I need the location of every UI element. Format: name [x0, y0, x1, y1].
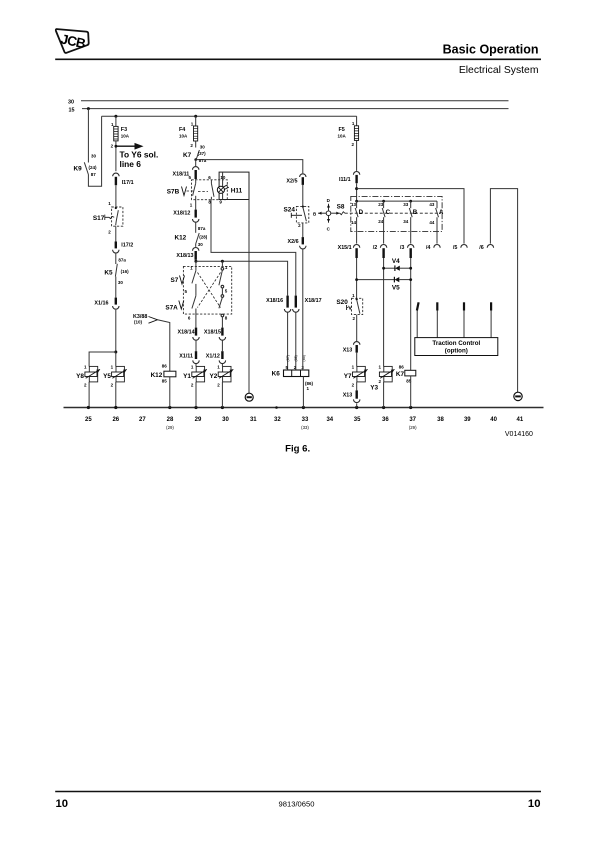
svg-text:39: 39	[464, 417, 471, 423]
svg-text:33: 33	[302, 417, 309, 423]
svg-text:24: 24	[378, 219, 384, 224]
svg-text:/2: /2	[373, 245, 378, 251]
node S7 right branch	[221, 260, 224, 263]
svg-text:line 6: line 6	[120, 159, 142, 169]
svg-text:1: 1	[352, 121, 355, 126]
svg-text:30: 30	[222, 417, 229, 423]
traction control probe 2	[436, 302, 438, 337]
wire X15/3 to K7 coil	[410, 258, 412, 370]
svg-text:87: 87	[91, 172, 97, 177]
S8 internal feed bus	[357, 200, 437, 202]
solenoid Y8	[76, 365, 100, 408]
svg-text:44: 44	[429, 220, 435, 225]
traction control box	[415, 338, 498, 356]
svg-text:X13: X13	[343, 392, 353, 398]
traction control probe 3	[463, 302, 465, 337]
wire S7B pin8 to X18/17	[211, 200, 296, 296]
svg-text:Y8: Y8	[76, 373, 84, 380]
bus junction dots	[87, 406, 90, 409]
solenoid Y5	[103, 365, 127, 408]
fuse F3	[111, 116, 130, 171]
S8 contact D	[351, 201, 364, 244]
svg-text:X18/11: X18/11	[173, 172, 190, 178]
svg-text:1: 1	[111, 365, 114, 370]
traction control probe 4	[490, 302, 492, 337]
svg-text:S24: S24	[284, 206, 296, 213]
ground bus bottom	[64, 407, 544, 409]
svg-text:X2/6: X2/6	[288, 239, 299, 245]
svg-text:S8: S8	[337, 204, 345, 211]
svg-text:(37): (37)	[198, 151, 207, 156]
connector X2/5	[286, 174, 306, 206]
node X18/13 branch	[194, 260, 197, 263]
svg-text:Y1: Y1	[183, 373, 191, 380]
fuse F4	[179, 116, 198, 148]
solenoid Y2	[209, 365, 233, 408]
svg-text:5: 5	[184, 289, 187, 294]
svg-text:(24): (24)	[89, 165, 98, 170]
svg-text:27: 27	[139, 417, 146, 423]
S8 contact C	[378, 201, 390, 244]
svg-text:28: 28	[167, 417, 174, 423]
svg-text:36: 36	[382, 417, 389, 423]
svg-text:38: 38	[437, 417, 444, 423]
svg-text:33: 33	[403, 202, 409, 207]
svg-text:1: 1	[84, 365, 87, 370]
svg-text:32: 32	[274, 417, 281, 423]
svg-text:Y7: Y7	[344, 373, 352, 380]
svg-text:10: 10	[220, 175, 226, 180]
svg-text:To Y6 sol.: To Y6 sol.	[120, 149, 159, 159]
svg-text:10A: 10A	[179, 133, 188, 138]
svg-text:40: 40	[490, 417, 497, 423]
switch S24	[284, 206, 309, 238]
connector X18/16	[266, 296, 291, 370]
svg-text:8: 8	[225, 315, 228, 320]
svg-text:Y3: Y3	[370, 384, 378, 391]
svg-text:1: 1	[225, 265, 228, 270]
svg-text:2: 2	[111, 143, 114, 148]
svg-text:X18/14: X18/14	[178, 330, 195, 336]
svg-text:1: 1	[217, 365, 220, 370]
diode V4	[382, 258, 412, 271]
connector X18/11	[173, 167, 199, 179]
label K3/88 (10)	[133, 314, 158, 325]
svg-text:31: 31	[250, 417, 257, 423]
node bus15/K9	[87, 107, 90, 110]
wire X15/2 to Y3	[383, 258, 385, 366]
svg-text:23: 23	[378, 202, 384, 207]
svg-text:9: 9	[219, 200, 222, 205]
node F3 out / arrow	[115, 145, 118, 148]
switch S17	[93, 201, 123, 235]
ground symbol left	[245, 393, 253, 401]
wire K7 to X18/11	[195, 160, 197, 166]
svg-text:Basic Operation: Basic Operation	[443, 43, 539, 57]
svg-text:(87): (87)	[286, 355, 290, 361]
connector I17/2	[113, 242, 134, 254]
svg-text:1: 1	[191, 365, 194, 370]
node rail/F4	[194, 115, 197, 118]
svg-text:F3: F3	[121, 127, 127, 133]
svg-text:(option): (option)	[445, 347, 468, 354]
svg-text:87a: 87a	[199, 158, 207, 163]
svg-text:C: C	[386, 209, 391, 216]
svg-text:10A: 10A	[121, 133, 130, 138]
svg-text:1: 1	[352, 365, 355, 370]
indicator lamp H11	[217, 172, 242, 199]
solenoid Y1	[183, 365, 207, 408]
node F5 feed	[355, 187, 358, 190]
wire X18/13 to X18/16	[196, 261, 288, 295]
svg-text:S7A: S7A	[165, 304, 178, 311]
svg-text:X1/16: X1/16	[94, 301, 108, 307]
svg-text:B: B	[413, 209, 418, 216]
svg-text:30: 30	[118, 280, 124, 285]
connector I11/1	[339, 172, 360, 202]
connector X18/15	[204, 328, 226, 352]
connector X2/6	[288, 237, 306, 370]
relay contact K9	[74, 154, 98, 177]
svg-text:V4: V4	[392, 258, 400, 265]
wire bus15 down to K9	[87, 109, 89, 163]
svg-text:X13: X13	[343, 347, 353, 353]
svg-text:10A: 10A	[338, 133, 347, 138]
svg-text:S7: S7	[170, 277, 178, 284]
wire X15/1 to S20	[356, 258, 358, 298]
svg-text:34: 34	[403, 219, 409, 224]
svg-text:I11/1: I11/1	[339, 177, 351, 183]
svg-text:/5: /5	[453, 245, 458, 251]
svg-text:2: 2	[352, 382, 355, 387]
diode V5	[355, 277, 412, 292]
svg-text:5: 5	[225, 288, 228, 293]
S8 contact B	[403, 201, 417, 244]
svg-text:X18/13: X18/13	[176, 253, 193, 259]
wire H11 box to ground (left ground line)	[248, 200, 250, 394]
svg-text:/3: /3	[400, 245, 405, 251]
svg-text:29: 29	[195, 417, 202, 423]
svg-text:S7B: S7B	[167, 188, 180, 195]
wire K3/88 to K12 coil	[158, 320, 170, 371]
bottom scale numbers	[85, 417, 524, 423]
svg-text:2: 2	[352, 316, 355, 321]
svg-text:30: 30	[198, 242, 204, 247]
svg-text:2: 2	[111, 382, 114, 387]
svg-text:X18/17: X18/17	[305, 298, 322, 304]
svg-text:2: 2	[378, 379, 381, 384]
wire to K5	[115, 253, 117, 264]
svg-text:85: 85	[162, 379, 168, 384]
svg-text:/4: /4	[426, 245, 431, 251]
relay contact K5	[104, 257, 129, 285]
connector X18/14	[178, 328, 200, 352]
svg-text:87a: 87a	[118, 257, 126, 262]
svg-text:35: 35	[354, 417, 361, 423]
svg-text:X18/16: X18/16	[266, 298, 283, 304]
wire S17 to I17/2	[115, 226, 117, 241]
svg-text:Fig 6.: Fig 6.	[285, 443, 310, 454]
switch block S7 / S7A	[165, 261, 231, 327]
wire X1/16 down to Y8/Y5 branch	[115, 310, 117, 352]
relay block K6	[272, 355, 314, 407]
connector X15/2	[373, 245, 387, 259]
svg-text:86: 86	[399, 364, 405, 369]
svg-text:S20: S20	[336, 299, 348, 306]
connector I17/1	[113, 173, 134, 186]
connector X18/17	[293, 296, 322, 370]
solenoid Y3	[370, 365, 394, 408]
svg-text:F5: F5	[339, 127, 345, 133]
connector X15/5	[453, 244, 467, 250]
svg-text:10: 10	[56, 798, 69, 810]
svg-text:B: B	[313, 211, 317, 216]
ground symbol right	[514, 392, 522, 400]
panel box H11	[219, 172, 249, 199]
switch S20	[336, 293, 362, 341]
svg-text:43: 43	[429, 202, 435, 207]
svg-text:Y5: Y5	[103, 373, 111, 380]
switch bank S8 box	[351, 196, 442, 231]
svg-text:9813/0650: 9813/0650	[279, 800, 315, 809]
svg-text:X18/12: X18/12	[173, 211, 190, 217]
svg-text:1: 1	[307, 386, 310, 391]
connector X15/4	[426, 244, 440, 250]
svg-text:X18/15: X18/15	[204, 330, 221, 336]
svg-text:2: 2	[191, 382, 194, 387]
wire fuse rail	[102, 115, 357, 117]
node K7 87a	[194, 158, 197, 161]
svg-text:2: 2	[298, 223, 301, 228]
wire to S17	[115, 185, 117, 207]
svg-text:13: 13	[351, 202, 357, 207]
fuse F5	[338, 116, 359, 171]
svg-text:1: 1	[352, 293, 355, 298]
relay contact K12	[174, 226, 207, 247]
svg-text:37: 37	[409, 417, 416, 423]
svg-text:30: 30	[68, 99, 74, 105]
wire F5 feed to X15/5	[357, 189, 464, 244]
connector X1/12	[206, 351, 226, 366]
svg-text:K9: K9	[74, 166, 83, 173]
svg-text:41: 41	[517, 417, 524, 423]
S8 contact A	[429, 201, 444, 244]
node Y branch	[114, 351, 117, 354]
solenoid Y7	[344, 365, 368, 391]
svg-text:H11: H11	[231, 188, 243, 195]
svg-text:D: D	[327, 198, 331, 203]
arrow To Y6 sol. line 6	[116, 143, 158, 169]
connector X15/1	[338, 245, 360, 259]
wire K7 87a to X2/5	[196, 160, 303, 174]
svg-text:X2/5: X2/5	[286, 178, 297, 184]
footer rule	[55, 791, 541, 793]
svg-text:I17/2: I17/2	[121, 242, 133, 248]
svg-text:10: 10	[528, 798, 541, 810]
svg-text:/6: /6	[479, 245, 484, 251]
svg-text:X15/1: X15/1	[338, 245, 352, 251]
header rule	[55, 58, 541, 60]
wire X15/6 to right ground	[490, 189, 517, 393]
svg-text:14: 14	[351, 220, 357, 225]
svg-text:(29): (29)	[409, 425, 417, 430]
JCB logo	[56, 29, 89, 53]
svg-text:D: D	[359, 209, 364, 216]
wire K5 to X1/16	[115, 277, 117, 298]
svg-text:1: 1	[378, 365, 381, 370]
svg-text:30: 30	[91, 154, 97, 159]
wire K9 output loop to fuse rail	[88, 116, 101, 186]
connector X15/6	[479, 245, 493, 251]
svg-text:K7: K7	[183, 152, 192, 159]
svg-text:87a: 87a	[198, 226, 206, 231]
connector X13 upper	[343, 342, 360, 367]
svg-text:(29): (29)	[166, 425, 174, 430]
svg-text:26: 26	[112, 417, 119, 423]
svg-text:X1/11: X1/11	[179, 354, 193, 360]
svg-text:(10): (10)	[134, 320, 143, 325]
svg-text:F4: F4	[179, 127, 185, 133]
wire branch to Y8	[89, 352, 116, 366]
svg-text:2: 2	[84, 382, 87, 387]
svg-text:K12: K12	[174, 234, 186, 241]
svg-text:S17: S17	[93, 215, 105, 222]
connector X15/3	[400, 245, 414, 259]
svg-text:A: A	[439, 209, 444, 216]
svg-text:1: 1	[108, 201, 111, 206]
svg-text:2: 2	[351, 142, 354, 147]
relay coil K7	[396, 364, 416, 407]
connector X1/16	[94, 298, 119, 310]
svg-text:K7: K7	[396, 371, 405, 378]
svg-text:2: 2	[217, 382, 220, 387]
svg-text:I17/1: I17/1	[122, 180, 134, 186]
svg-text:2: 2	[108, 230, 111, 235]
wire branch to Y5	[115, 352, 117, 366]
connector X18/13	[176, 244, 198, 260]
connector X1/11	[179, 351, 199, 366]
svg-text:X1/12: X1/12	[206, 354, 220, 360]
relay coil K12	[151, 363, 176, 407]
svg-text:K6: K6	[272, 371, 281, 378]
switch block S7B	[167, 175, 228, 210]
traction control probe 1	[417, 302, 419, 337]
connector X13 lower	[343, 390, 360, 407]
selector mechanism S8	[313, 198, 441, 232]
svg-text:(33): (33)	[301, 425, 309, 430]
wire X18/12 to K12 contact	[195, 222, 197, 233]
svg-text:25: 25	[85, 417, 92, 423]
svg-text:86: 86	[162, 363, 168, 368]
svg-text:2: 2	[190, 143, 193, 148]
svg-text:1: 1	[190, 203, 193, 208]
svg-text:V014160: V014160	[505, 431, 533, 438]
svg-text:5: 5	[188, 175, 191, 180]
svg-text:Electrical System: Electrical System	[459, 65, 539, 76]
svg-text:C: C	[327, 227, 331, 232]
svg-text:30: 30	[200, 145, 206, 150]
svg-text:Y2: Y2	[209, 373, 217, 380]
svg-text:V5: V5	[392, 285, 400, 292]
svg-text:(16): (16)	[121, 269, 130, 274]
connector X18/12	[173, 210, 199, 223]
svg-text:34: 34	[326, 417, 333, 423]
svg-text:K5: K5	[104, 269, 113, 276]
svg-text:6: 6	[188, 315, 191, 320]
svg-text:Traction Control: Traction Control	[432, 340, 480, 347]
node rail/F3	[114, 115, 117, 118]
svg-text:15: 15	[69, 107, 75, 113]
svg-text:(28): (28)	[199, 234, 208, 239]
svg-text:6: 6	[208, 175, 211, 180]
svg-text:(85): (85)	[294, 355, 298, 361]
relay contact K7	[183, 145, 207, 163]
